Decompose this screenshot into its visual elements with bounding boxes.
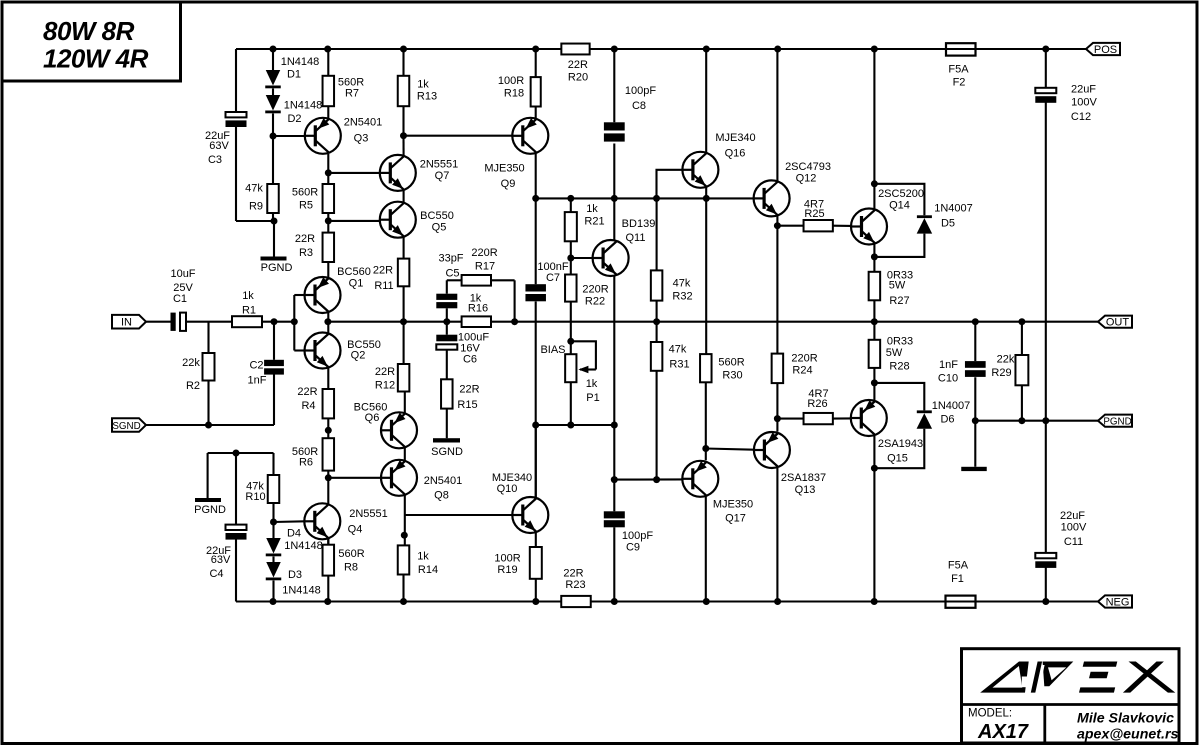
svg-text:22R: 22R: [375, 366, 395, 378]
svg-text:1N4148: 1N4148: [282, 585, 321, 597]
svg-text:MODEL:: MODEL:: [968, 708, 1012, 720]
svg-text:D4: D4: [287, 528, 301, 540]
svg-text:MJE350: MJE350: [484, 163, 524, 175]
svg-text:Q8: Q8: [434, 490, 449, 502]
svg-text:R5: R5: [299, 200, 313, 212]
svg-text:100V: 100V: [1061, 522, 1087, 534]
svg-text:1N4007: 1N4007: [934, 203, 973, 215]
svg-text:2N5401: 2N5401: [424, 475, 463, 487]
svg-text:C10: C10: [938, 373, 958, 385]
svg-text:100R: 100R: [498, 75, 524, 87]
svg-text:22uF: 22uF: [1071, 84, 1096, 96]
svg-text:Q6: Q6: [365, 412, 380, 424]
svg-text:1N4007: 1N4007: [932, 400, 971, 412]
svg-text:Q14: Q14: [889, 200, 910, 212]
svg-text:Q2: Q2: [351, 350, 366, 362]
svg-text:D5: D5: [941, 218, 955, 230]
svg-text:220R: 220R: [471, 247, 497, 259]
svg-text:22R: 22R: [568, 59, 588, 71]
svg-text:1N4148: 1N4148: [284, 100, 323, 112]
svg-text:47k: 47k: [669, 344, 687, 356]
svg-text:1k: 1k: [242, 290, 254, 302]
svg-text:2N5551: 2N5551: [349, 508, 388, 520]
svg-text:560R: 560R: [718, 357, 744, 369]
svg-text:PGND: PGND: [261, 262, 293, 274]
svg-text:22R: 22R: [295, 233, 315, 245]
svg-text:NEG: NEG: [1106, 597, 1130, 609]
svg-text:1N4148: 1N4148: [284, 540, 323, 552]
svg-text:R10: R10: [245, 491, 265, 503]
svg-text:R28: R28: [889, 361, 909, 373]
svg-text:Q13: Q13: [795, 484, 816, 496]
svg-text:Q4: Q4: [348, 524, 363, 536]
svg-text:R9: R9: [249, 201, 263, 213]
svg-text:R15: R15: [457, 399, 477, 411]
svg-text:R29: R29: [991, 367, 1011, 379]
svg-text:1k: 1k: [586, 378, 598, 390]
svg-text:47k: 47k: [673, 278, 691, 290]
svg-text:1nF: 1nF: [248, 375, 267, 387]
svg-text:1k: 1k: [417, 551, 429, 563]
svg-text:SGND: SGND: [431, 446, 463, 458]
svg-text:R8: R8: [344, 562, 358, 574]
svg-text:R27: R27: [889, 295, 909, 307]
svg-text:63V: 63V: [209, 140, 229, 152]
svg-text:R21: R21: [584, 216, 604, 228]
svg-text:2SA1943: 2SA1943: [878, 438, 923, 450]
svg-text:OUT: OUT: [1106, 317, 1130, 329]
svg-text:22R: 22R: [297, 386, 317, 398]
svg-text:10uF: 10uF: [170, 268, 195, 280]
svg-text:Q17: Q17: [725, 513, 746, 525]
svg-text:220R: 220R: [791, 353, 817, 365]
svg-text:SGND: SGND: [112, 421, 140, 432]
svg-text:Q10: Q10: [497, 483, 518, 495]
svg-text:R2: R2: [186, 380, 200, 392]
svg-text:R32: R32: [672, 291, 692, 303]
svg-text:1N4148: 1N4148: [281, 56, 320, 68]
svg-text:Q11: Q11: [626, 232, 646, 244]
svg-text:100V: 100V: [1071, 97, 1097, 109]
svg-text:R26: R26: [807, 398, 827, 410]
svg-text:2N5401: 2N5401: [344, 117, 383, 129]
svg-text:R20: R20: [568, 72, 588, 84]
svg-text:22k: 22k: [182, 357, 200, 369]
svg-text:PGND: PGND: [1103, 417, 1131, 428]
svg-text:F2: F2: [953, 77, 966, 89]
svg-text:AX17: AX17: [977, 721, 1029, 743]
svg-text:0R33: 0R33: [887, 336, 913, 348]
svg-text:D3: D3: [288, 569, 302, 581]
svg-text:Q12: Q12: [796, 173, 817, 185]
svg-text:BC560: BC560: [337, 266, 371, 278]
svg-text:IN: IN: [121, 317, 132, 329]
svg-text:R14: R14: [418, 564, 438, 576]
svg-text:Q7: Q7: [435, 170, 450, 182]
svg-text:R30: R30: [722, 370, 742, 382]
svg-text:R4: R4: [301, 400, 315, 412]
svg-text:C7: C7: [546, 272, 560, 284]
svg-text:POS: POS: [1094, 44, 1117, 56]
svg-text:2N5551: 2N5551: [420, 159, 459, 171]
svg-text:C4: C4: [209, 568, 223, 580]
svg-text:22R: 22R: [459, 384, 479, 396]
svg-text:C2: C2: [249, 360, 263, 372]
svg-text:R18: R18: [504, 88, 524, 100]
svg-text:R12: R12: [375, 380, 395, 392]
svg-text:C3: C3: [208, 154, 222, 166]
svg-text:33pF: 33pF: [438, 253, 463, 265]
svg-text:BC550: BC550: [420, 210, 454, 222]
svg-text:80W 8R: 80W 8R: [43, 16, 135, 46]
svg-text:R6: R6: [299, 457, 313, 469]
svg-text:C12: C12: [1071, 111, 1091, 123]
svg-text:47k: 47k: [245, 183, 263, 195]
svg-text:P1: P1: [586, 392, 599, 404]
svg-text:2SC4793: 2SC4793: [785, 161, 831, 173]
svg-text:100pF: 100pF: [622, 530, 653, 542]
svg-text:C8: C8: [632, 100, 646, 112]
svg-text:560R: 560R: [292, 187, 318, 199]
svg-text:R24: R24: [792, 365, 812, 377]
svg-text:BIAS: BIAS: [540, 344, 565, 356]
svg-text:120W 4R: 120W 4R: [43, 44, 149, 74]
svg-text:PGND: PGND: [194, 504, 226, 516]
svg-text:22R: 22R: [563, 568, 583, 580]
svg-text:2SC5200: 2SC5200: [878, 188, 924, 200]
svg-text:100R: 100R: [494, 553, 520, 565]
svg-text:Mile Slavkovic: Mile Slavkovic: [1077, 711, 1174, 727]
svg-text:MJE350: MJE350: [713, 499, 753, 511]
svg-text:Q15: Q15: [887, 453, 908, 465]
svg-text:1k: 1k: [417, 79, 429, 91]
svg-text:C5: C5: [445, 268, 459, 280]
svg-text:R31: R31: [669, 359, 689, 371]
svg-text:R19: R19: [497, 564, 517, 576]
svg-text:5W: 5W: [889, 280, 906, 292]
svg-text:apex@eunet.rs: apex@eunet.rs: [1077, 727, 1178, 743]
svg-text:MJE340: MJE340: [715, 132, 755, 144]
svg-text:Q16: Q16: [725, 148, 746, 160]
svg-text:R25: R25: [804, 208, 824, 220]
svg-text:63V: 63V: [211, 554, 231, 566]
svg-text:R16: R16: [468, 303, 488, 315]
svg-text:22uF: 22uF: [1060, 510, 1085, 522]
svg-text:220R: 220R: [582, 284, 608, 296]
svg-text:22R: 22R: [373, 265, 393, 277]
svg-text:F1: F1: [951, 573, 964, 585]
svg-text:R23: R23: [565, 579, 585, 591]
svg-text:D2: D2: [287, 113, 301, 125]
svg-text:C6: C6: [463, 354, 477, 366]
svg-text:R13: R13: [417, 91, 437, 103]
svg-text:1nF: 1nF: [939, 359, 958, 371]
svg-text:R22: R22: [585, 296, 605, 308]
svg-text:R11: R11: [374, 280, 393, 292]
svg-text:C1: C1: [173, 293, 187, 305]
svg-text:R1: R1: [242, 305, 256, 317]
svg-text:1k: 1k: [586, 203, 598, 215]
svg-text:F5A: F5A: [948, 560, 969, 572]
svg-text:Q9: Q9: [501, 178, 516, 190]
svg-text:F5A: F5A: [948, 64, 969, 76]
svg-text:5W: 5W: [886, 347, 903, 359]
svg-text:R3: R3: [299, 247, 313, 259]
svg-text:BD139: BD139: [622, 218, 656, 230]
svg-text:Q1: Q1: [349, 278, 364, 290]
svg-text:Q5: Q5: [432, 222, 447, 234]
svg-text:C9: C9: [626, 542, 640, 554]
svg-text:D6: D6: [940, 414, 954, 426]
svg-text:560R: 560R: [338, 548, 364, 560]
svg-text:2SA1837: 2SA1837: [781, 472, 826, 484]
svg-text:100pF: 100pF: [625, 85, 656, 97]
svg-text:C11: C11: [1064, 536, 1083, 548]
svg-text:R7: R7: [345, 88, 359, 100]
svg-text:Q3: Q3: [354, 133, 369, 145]
svg-text:D1: D1: [287, 69, 301, 81]
svg-text:R17: R17: [475, 261, 495, 273]
svg-text:22k: 22k: [997, 354, 1015, 366]
